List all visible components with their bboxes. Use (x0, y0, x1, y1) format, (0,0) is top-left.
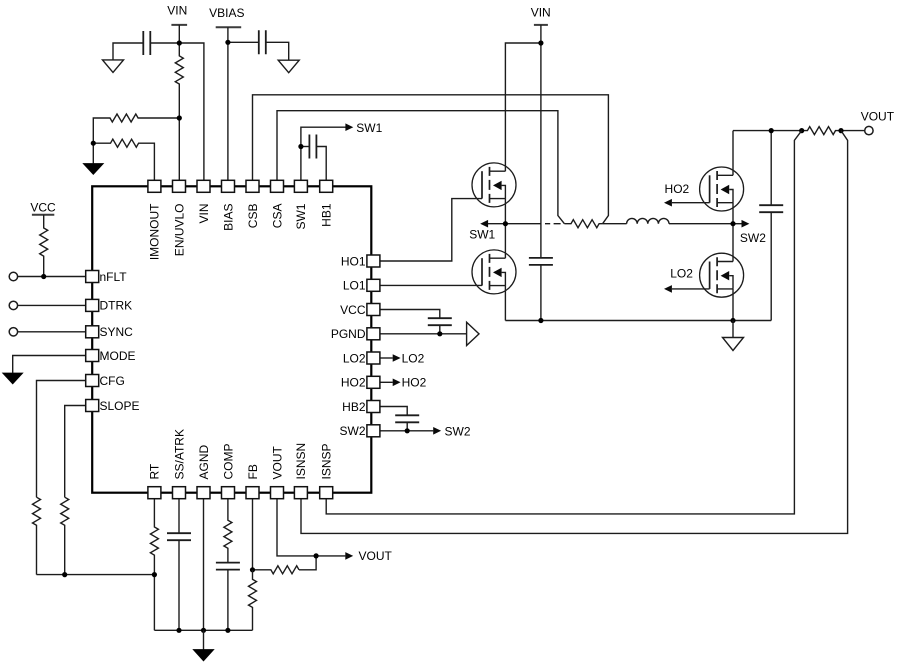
svg-text:nFLT: nFLT (100, 270, 128, 284)
svg-text:HO2: HO2 (665, 182, 690, 196)
junction dot input cap / rail (538, 318, 543, 323)
wire AGND riser (203, 499, 205, 631)
pin RT (148, 487, 161, 499)
svg-text:VIN: VIN (197, 204, 211, 224)
op-amp U1 controller IC body (92, 186, 371, 492)
capacitor C8 (SS/ATRK) (167, 533, 191, 540)
pin COMP (222, 487, 235, 499)
pin SS/ATRK (173, 487, 186, 499)
pin PGND (367, 328, 380, 340)
ground (filled) G6 (192, 649, 214, 661)
arrowhead SW1 (top) (345, 123, 353, 131)
resistor R4 (current sense) (564, 220, 602, 228)
capacitor C1 (VIN bypass) (143, 31, 150, 55)
resistor R7 (CFG) (33, 497, 41, 574)
svg-text:HO2: HO2 (402, 376, 427, 390)
svg-text:VIN: VIN (167, 4, 187, 18)
wire C8 to AGND rail (178, 540, 180, 630)
resistor R10 (COMP) (224, 499, 232, 563)
svg-text:BIAS: BIAS (221, 203, 235, 230)
junction dot nFLT/R6 (41, 274, 46, 279)
svg-text:VCC: VCC (340, 303, 366, 317)
wire SW1 pin riser and arrow line (301, 127, 346, 180)
wire ISNSP run (to R5 left) (326, 131, 802, 514)
svg-text:SW2: SW2 (740, 231, 766, 245)
pin CFG (86, 375, 99, 387)
terminal nFLT (open circle) (9, 272, 17, 280)
resistor R2 (EN/UVLO upper divider) (93, 114, 179, 143)
capacitor C9 (COMP) (216, 563, 240, 570)
wire AGND bottom rail (154, 629, 252, 631)
wire Q1 source to SW1 node (504, 199, 506, 224)
wire Q4 drain to SW2 node (732, 224, 734, 262)
svg-text:ISNSN: ISNSN (294, 443, 308, 480)
junction dot VIN rail (538, 40, 543, 45)
svg-text:IMONOUT: IMONOUT (148, 203, 162, 260)
arrowhead Q3 gate (HO2) (664, 199, 672, 207)
capacitor C7 (HB2 bootstrap) (395, 415, 419, 422)
arrowhead LO2 pin (393, 354, 401, 362)
wire ground stem below Q4 (732, 321, 734, 338)
wire Q3 drain to VOUT rail (732, 131, 734, 176)
svg-text:LO2: LO2 (670, 267, 693, 281)
junction dot SW1/C3 (298, 144, 303, 149)
svg-text:VOUT: VOUT (270, 445, 284, 479)
wire Q4 source to power ground rail (732, 289, 734, 321)
wire EN/UVLO pin riser (178, 118, 180, 180)
svg-text:DTRK: DTRK (100, 299, 133, 313)
svg-text:RT: RT (148, 463, 162, 479)
node SW2 arrow line (733, 223, 742, 225)
pin SLOPE (86, 400, 99, 412)
wire SYNC (18, 331, 86, 333)
junction dot R5 left (799, 128, 804, 133)
wire VOUT junction to feedback (299, 556, 316, 570)
wire SS/ATRK riser (178, 499, 180, 534)
wire CSB sense (to sense resistor right) (253, 95, 609, 224)
wire PGND pin to symbol (380, 333, 467, 335)
wire VBIAS stem to BIAS pin (227, 27, 229, 180)
ground PGND (open right-pointing) (467, 322, 479, 345)
resistor R3 (IMONOUT) (93, 139, 154, 180)
ground (open) G3 (278, 60, 299, 72)
svg-text:CSB: CSB (246, 204, 260, 229)
junction dot FB (250, 567, 255, 572)
ground (open) G1 (103, 60, 124, 73)
wire C3 to HB1 pin (316, 147, 326, 181)
wire HO2 pin arrow line (380, 381, 393, 383)
ground (filled) G5 (2, 373, 24, 385)
wire Q3 gate lead (672, 202, 710, 204)
svg-text:VBIAS: VBIAS (209, 6, 244, 20)
svg-text:VCC: VCC (30, 200, 56, 214)
transistor Q1 (buck high side) (472, 163, 516, 207)
pin HO1 (367, 255, 380, 267)
capacitor C4 (input) (529, 258, 553, 265)
pin IMONOUT (148, 180, 161, 192)
svg-text:SLOPE: SLOPE (100, 399, 140, 413)
pin CSB (246, 180, 259, 192)
pin SW1 (294, 180, 307, 192)
transistor Q2 (buck low side) (472, 250, 516, 294)
wire Q2 drain to SW1 node (504, 224, 506, 259)
junction dot SW1 node (503, 221, 508, 226)
junction dot R2/R3/ground (91, 141, 96, 146)
pin DTRK (86, 299, 99, 311)
pin SW2 (367, 425, 380, 437)
wire SLOPE run (65, 406, 86, 498)
svg-text:HO2: HO2 (341, 376, 366, 390)
capacitor C6 (VCC bypass) (428, 318, 452, 325)
junction dot VOUT arrow (314, 553, 319, 558)
wire Q3 source to SW2 node (732, 203, 734, 224)
pin ISNSP (320, 487, 333, 499)
junction dot VBIAS (225, 40, 230, 45)
wire C7 to SW2 wire (406, 422, 408, 431)
wire C2 to ground (266, 42, 289, 60)
resistor R5 (output current sense) (802, 127, 841, 135)
arrowhead SW1 node (480, 220, 488, 228)
wire VIN top rail to Q1 drain (505, 43, 541, 171)
terminal DTRK (open circle) (9, 301, 17, 309)
capacitor C5 (output) (759, 205, 783, 212)
pin LO2 (367, 352, 380, 364)
arrowhead SW2 node (742, 220, 750, 228)
wire HO1 to Q1 gate (380, 199, 482, 261)
wire Q4 gate lead (672, 288, 710, 290)
svg-text:COMP: COMP (221, 444, 235, 480)
transistor Q4 (boost low side) (700, 253, 744, 297)
junction dot rail/C5 (769, 128, 774, 133)
pin MODE (86, 350, 99, 362)
pin LO1 (367, 279, 380, 291)
svg-text:PGND: PGND (331, 327, 366, 341)
junction dot COMP rail (225, 628, 230, 633)
arrowhead VOUT (bottom) (345, 552, 353, 560)
junction dot C6/PGND (437, 331, 442, 336)
arrowhead SW2 pin (433, 427, 441, 435)
pin VOUT (271, 487, 284, 499)
wire VOUT rail (733, 130, 802, 132)
wire CSA sense (to sense resistor left) (277, 111, 564, 224)
wire VCC to C6 (380, 310, 440, 319)
junction dot C7/SW2 (405, 428, 410, 433)
wire output cap riser (770, 131, 772, 321)
wire ground stem AGND (203, 630, 205, 649)
pin HB2 (367, 401, 380, 413)
junction dot RT rail (152, 572, 157, 577)
wire DTRK (18, 304, 86, 306)
svg-text:MODE: MODE (100, 349, 136, 363)
terminal VCC (left) (30, 200, 56, 215)
wire ISNSN run (to R5 right) (301, 131, 848, 534)
junction dot SW2 node (730, 221, 735, 226)
resistor R1 (VIN to EN/UVLO) (175, 43, 183, 118)
svg-text:LO1: LO1 (343, 279, 366, 293)
resistor R6 (VCC pull-up) (40, 215, 48, 277)
capacitor C3 (HB1 bootstrap) (309, 135, 316, 159)
pin HB1 (320, 180, 333, 192)
node SW1 arrow line (488, 223, 505, 225)
svg-text:ISNSP: ISNSP (320, 443, 334, 479)
wire VOUT pin arrow run (277, 499, 345, 556)
svg-text:SW1: SW1 (294, 203, 308, 229)
junction dot VIN/C1 (177, 40, 182, 45)
svg-text:EN/UVLO: EN/UVLO (172, 204, 186, 257)
wire VIN stem (178, 25, 180, 43)
wire sense resistor to inductor (603, 223, 627, 225)
ground (filled) G2 (82, 143, 104, 175)
svg-text:CFG: CFG (100, 374, 125, 388)
net VIN terminal (top left) (167, 4, 187, 25)
pin nFLT (86, 271, 99, 283)
wire SW1 node to C3 (301, 146, 310, 148)
junction dot SLOPE rail (62, 572, 67, 577)
svg-text:HO1: HO1 (341, 254, 366, 268)
wire C6 to PGND wire (439, 325, 441, 334)
pin EN/UVLO (173, 180, 186, 192)
svg-text:LO2: LO2 (402, 351, 425, 365)
wire C9 to AGND rail (227, 570, 229, 631)
wire LO1 to Q2 gate (380, 284, 482, 286)
pin VCC (367, 304, 380, 316)
wire C1 to chassis ground (113, 43, 143, 60)
pin BIAS (222, 180, 235, 192)
wire VBIAS node to C2 (228, 41, 259, 43)
wire LO2 pin arrow line (380, 357, 393, 359)
resistor R8 (SLOPE) (61, 497, 69, 574)
pin FB (246, 487, 259, 499)
pin VIN (197, 180, 210, 192)
svg-text:SS/ATRK: SS/ATRK (172, 429, 186, 479)
svg-text:SW1: SW1 (469, 228, 495, 242)
svg-text:SW2: SW2 (339, 424, 365, 438)
svg-text:CSA: CSA (270, 204, 284, 229)
resistor R11 (feedback top) (253, 566, 300, 574)
capacitor C2 (VBIAS bypass) (259, 30, 266, 54)
net VIN terminal (top right) (531, 6, 551, 25)
junction dot SS rail (176, 628, 181, 633)
arrowhead HO2 pin (393, 379, 401, 387)
terminal SYNC (open circle) (9, 328, 17, 336)
transistor Q3 (boost high side) (700, 167, 744, 211)
resistor R12 (feedback bottom) (249, 570, 257, 631)
wire RT to AGND rail (153, 575, 155, 631)
wire VIN stem right (540, 25, 542, 43)
pin HO2 (367, 376, 380, 388)
wire R5 to VOUT terminal (841, 130, 865, 132)
wire SW1 node to sense resistor (505, 223, 560, 225)
wire HB2 to C7 (380, 407, 407, 416)
wire C4 to power ground rail (540, 265, 542, 321)
ground (open) G4 (723, 338, 744, 351)
svg-text:SW2: SW2 (445, 424, 471, 438)
svg-text:HB1: HB1 (320, 203, 334, 227)
pin CSA (271, 180, 284, 192)
wire SW2 pin arrow line (380, 430, 433, 432)
wire CFG run (37, 381, 86, 498)
svg-text:AGND: AGND (197, 444, 211, 479)
svg-text:LO2: LO2 (343, 351, 366, 365)
wire VIN node to VIN pin (179, 43, 204, 180)
svg-text:HB2: HB2 (342, 400, 366, 414)
junction dot Q4 source / rail (730, 318, 735, 323)
inductor L1 (627, 218, 669, 223)
wire FB pin riser (252, 499, 254, 570)
svg-text:FB: FB (246, 464, 260, 479)
wire CFG/SLOPE to RT rail (37, 574, 155, 576)
wire VIN node to C1 (150, 42, 179, 44)
junction dot EN divider (177, 115, 182, 120)
pin AGND (197, 487, 210, 499)
wire nFLT (18, 276, 86, 278)
svg-text:SYNC: SYNC (100, 325, 134, 339)
svg-text:VIN: VIN (531, 6, 551, 20)
wire power ground rail (505, 320, 771, 322)
net VBIAS terminal (209, 6, 244, 28)
svg-text:SW1: SW1 (356, 121, 382, 135)
junction dot R5 right (838, 128, 843, 133)
wire Q2 source to power ground rail (504, 286, 506, 321)
resistor R9 (RT) (150, 499, 158, 575)
arrowhead Q4 gate (LO2) (664, 285, 672, 293)
svg-text:VOUT: VOUT (861, 109, 895, 123)
pin SYNC (86, 326, 99, 338)
pin ISNSN (294, 487, 307, 499)
terminal VOUT (open circle) (865, 126, 873, 134)
wire VIN riser to input cap (540, 43, 542, 258)
wire MODE to ground (13, 356, 86, 373)
junction dot AGND rail (201, 628, 206, 633)
wire inductor to SW2 node (669, 223, 733, 225)
svg-text:VOUT: VOUT (359, 549, 393, 563)
